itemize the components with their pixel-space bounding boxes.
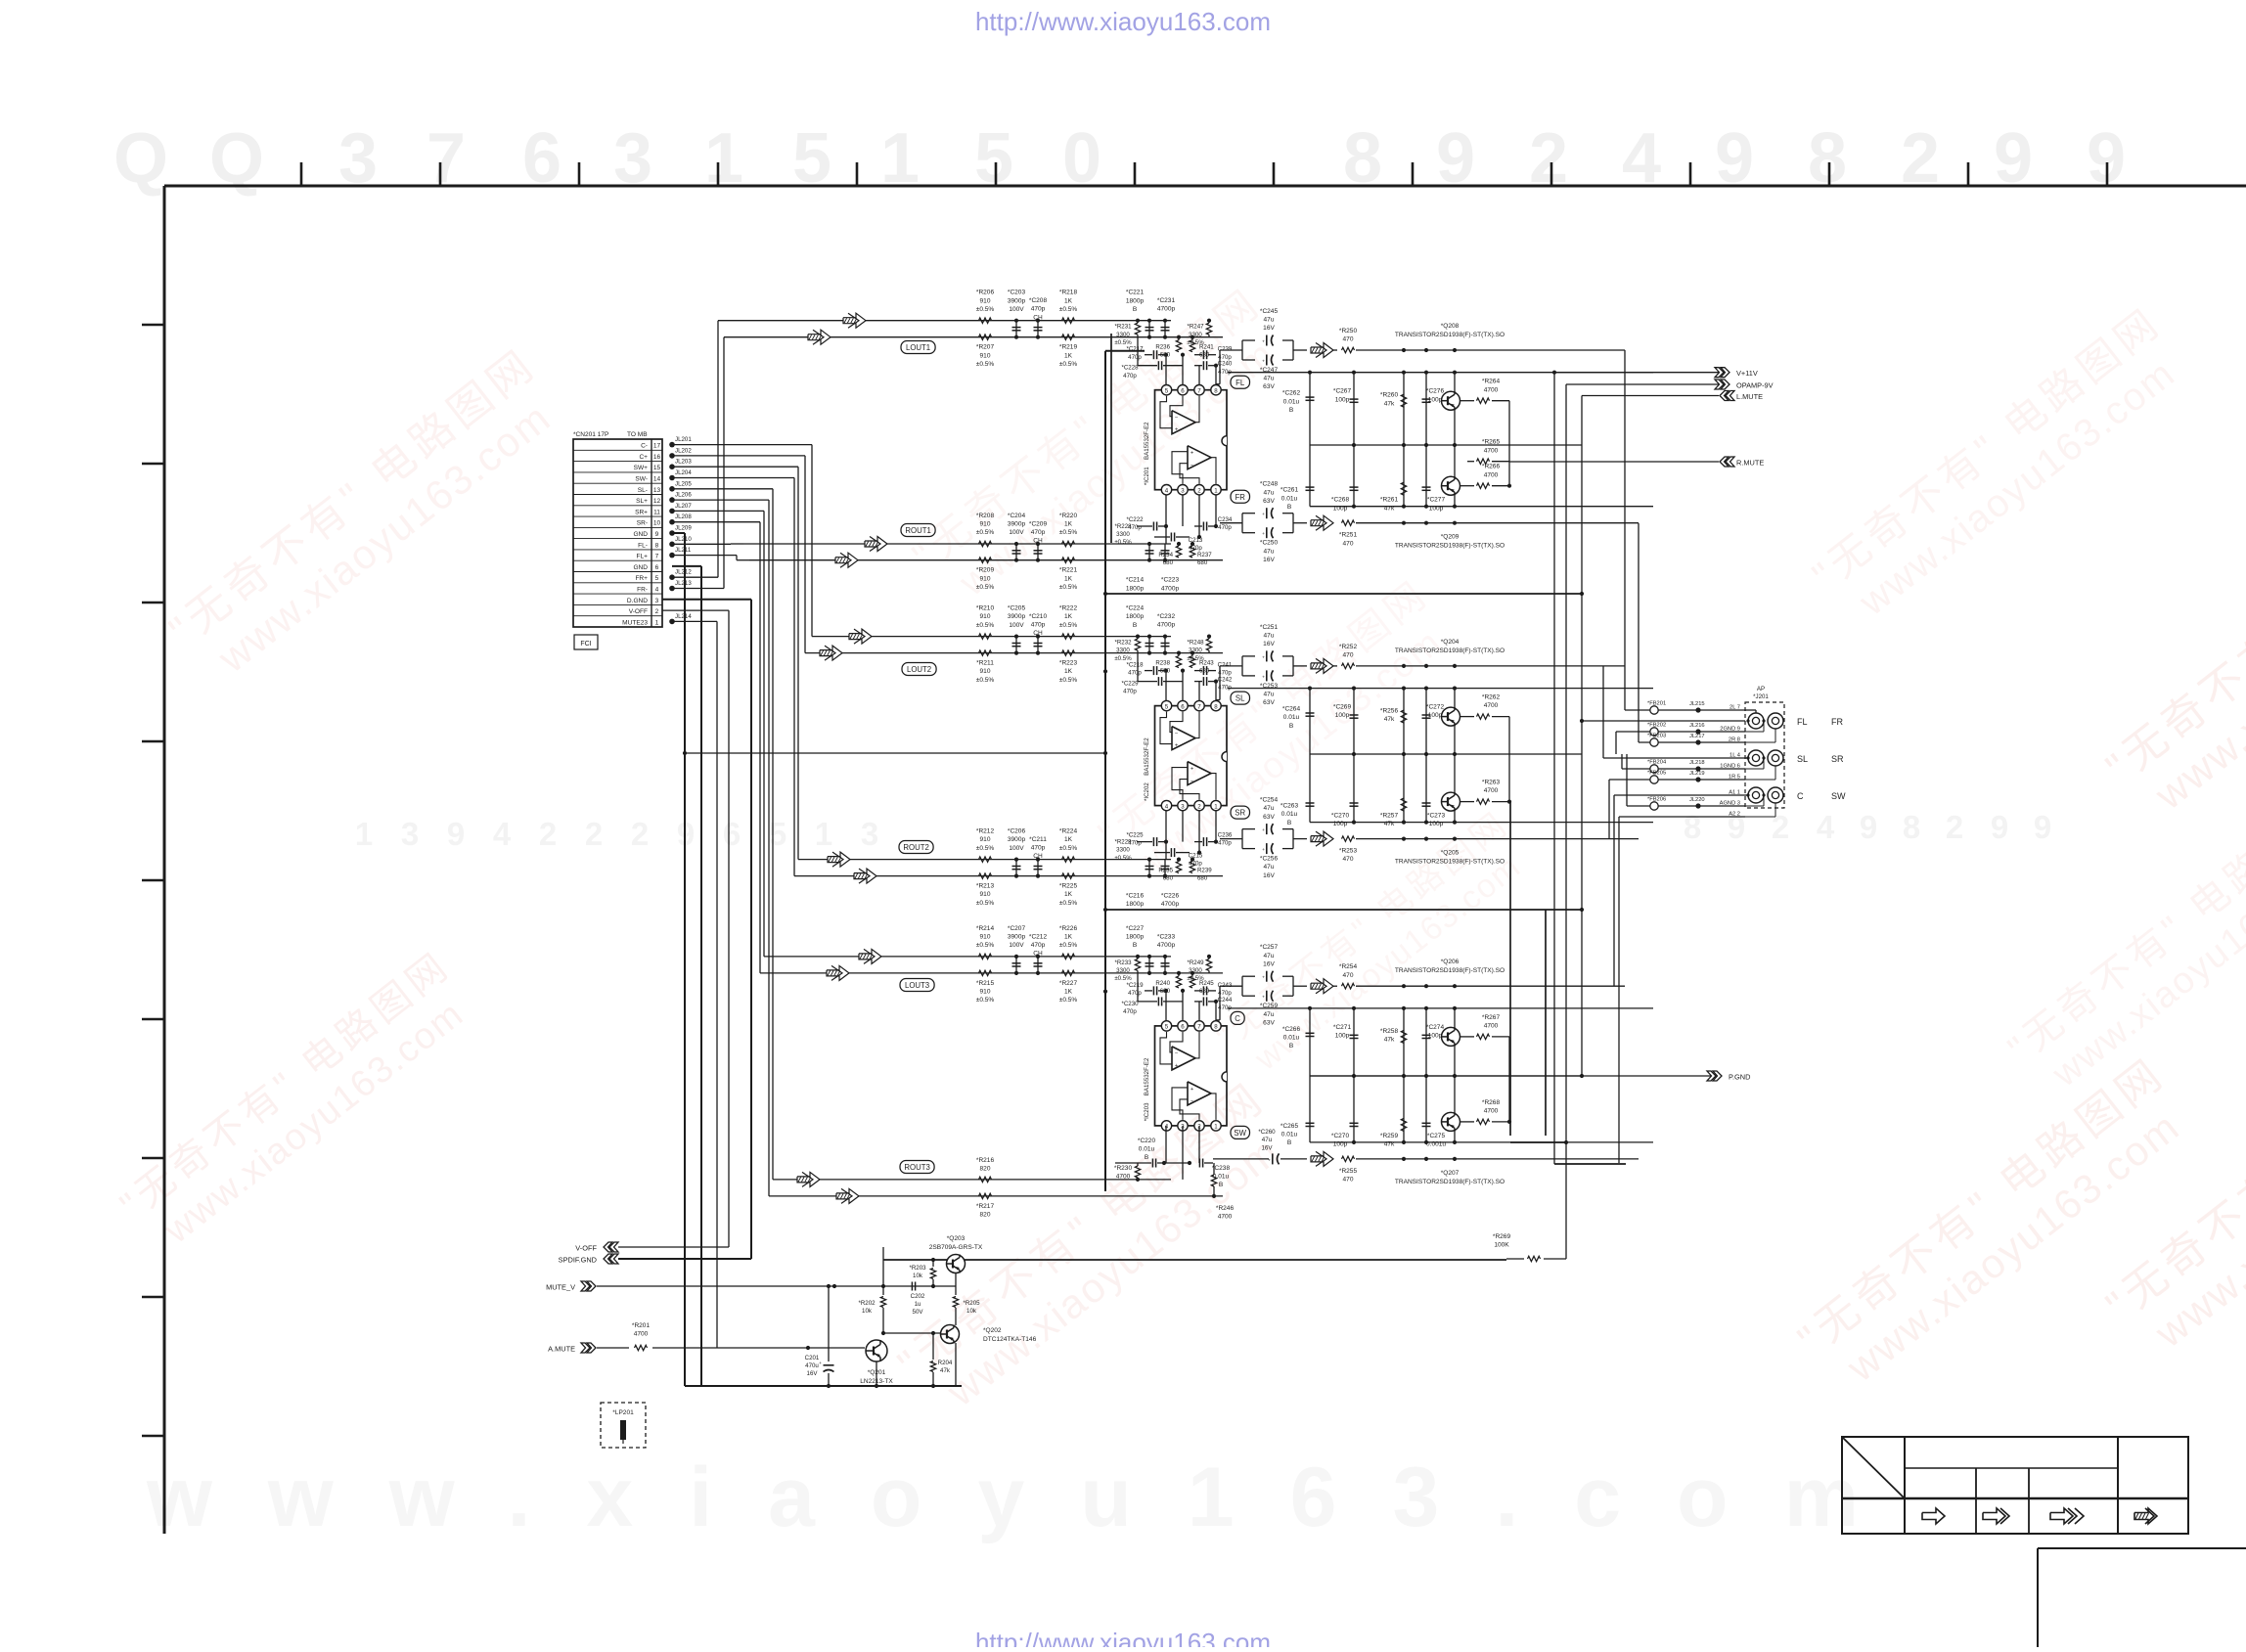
svg-text:±0.5%: ±0.5% (1114, 855, 1132, 862)
resistor R235 680 (1176, 862, 1181, 873)
svg-text:*R208: *R208 (976, 513, 995, 519)
svg-text:R237: R237 (1197, 552, 1212, 558)
resistor R221 (1062, 558, 1075, 562)
jumper JL203 (669, 464, 675, 469)
svg-text:*FB203: *FB203 (1647, 734, 1666, 739)
svg-text:1K: 1K (1064, 352, 1073, 359)
svg-text:1800p: 1800p (1126, 934, 1145, 941)
svg-text:TRANSISTOR2SD1938(F)-ST(TX).SO: TRANSISTOR2SD1938(F)-ST(TX).SO (1395, 1179, 1505, 1185)
svg-text:±0.5%: ±0.5% (976, 845, 995, 852)
resistor R255 470 (1342, 1156, 1355, 1161)
svg-text:SW-: SW- (635, 476, 648, 483)
svg-text:B: B (1133, 306, 1138, 313)
svg-text:*C226: *C226 (1161, 893, 1180, 900)
svg-text:*C269: *C269 (1333, 704, 1352, 711)
svg-text:63V: 63V (1263, 498, 1275, 505)
op-amp IC IC201 body (1155, 390, 1228, 490)
svg-text:*R233: *R233 (1114, 960, 1132, 966)
svg-text:JL217: JL217 (1689, 734, 1705, 739)
svg-text:*C257: *C257 (1260, 944, 1279, 951)
svg-text:*C228: *C228 (1121, 365, 1139, 372)
svg-text:47u: 47u (1262, 1137, 1273, 1143)
svg-text:63V: 63V (1263, 383, 1275, 390)
svg-text:*R202: *R202 (858, 1300, 876, 1307)
svg-text:*CN201 17P: *CN201 17P (573, 431, 609, 438)
pin 4 of IC202 (1161, 800, 1171, 810)
svg-text:*IC203: *IC203 (1144, 1102, 1150, 1121)
pin 4 of IC201 (1161, 485, 1171, 495)
op-amp B of IC201 (1188, 446, 1211, 469)
svg-text:*R226: *R226 (1059, 925, 1078, 932)
svg-text:1GND 6: 1GND 6 (1720, 764, 1740, 770)
svg-text:470p: 470p (1128, 524, 1142, 531)
wire pin16 route (672, 455, 805, 457)
svg-text:B: B (1289, 407, 1294, 414)
svg-text:7: 7 (1197, 1024, 1201, 1031)
pin 2 of IC202 (1194, 800, 1204, 810)
wire ROUT2 bottom line (794, 875, 1223, 877)
svg-text:ROUT3: ROUT3 (904, 1163, 929, 1172)
jumper JL206 (669, 497, 675, 503)
watermark gray digits middle row (355, 816, 878, 852)
svg-text:V+11V: V+11V (1736, 369, 1758, 378)
svg-text:*R262: *R262 (1482, 694, 1501, 701)
svg-text:R238: R238 (1155, 660, 1170, 667)
capacitor C264 0.01u (1309, 689, 1311, 754)
svg-text:470p: 470p (1128, 354, 1142, 361)
jumper JL213 (669, 586, 675, 592)
svg-text:*R260: *R260 (1380, 392, 1399, 399)
op-amp A of IC202 (1172, 727, 1195, 750)
svg-text:*C273: *C273 (1427, 813, 1446, 820)
svg-text:JL208: JL208 (675, 513, 692, 520)
svg-text:*C254: *C254 (1260, 797, 1279, 804)
svg-text:4700p: 4700p (1157, 622, 1176, 629)
label ROUT3 (900, 1161, 934, 1174)
svg-text:100p: 100p (1428, 712, 1443, 719)
svg-text:*Q208: *Q208 (1441, 323, 1460, 330)
svg-text:*FB206: *FB206 (1647, 797, 1666, 803)
pin 5 of IC201 (1161, 385, 1171, 395)
svg-text:±0.5%: ±0.5% (1114, 539, 1132, 546)
svg-text:13: 13 (653, 487, 661, 494)
svg-text:V-OFF: V-OFF (629, 608, 648, 615)
transistor Q201 (866, 1340, 887, 1362)
svg-text:*R203: *R203 (909, 1265, 926, 1272)
resistor R213 (979, 873, 992, 878)
svg-text:*C209: *C209 (1029, 520, 1048, 527)
svg-text:100K: 100K (1494, 1242, 1509, 1249)
jack SR (1768, 750, 1783, 766)
svg-text:A2 2: A2 2 (1729, 812, 1740, 818)
capacitor C202 1u 50V (911, 1282, 913, 1291)
title block diagonal (1842, 1437, 1905, 1498)
svg-text:R243: R243 (1199, 660, 1214, 667)
arrow A.MUTE (581, 1343, 590, 1353)
capacitor C213 470p (1170, 533, 1172, 542)
resistor R267 4700 (1460, 1036, 1474, 1038)
svg-text:3300: 3300 (1116, 847, 1130, 854)
svg-text:*C219: *C219 (1126, 982, 1144, 989)
svg-text:FR-: FR- (637, 587, 648, 594)
jumper JL219 (1695, 777, 1700, 781)
svg-text:*R249: *R249 (1187, 960, 1204, 966)
svg-text:*C218: *C218 (1126, 662, 1144, 669)
svg-text:*FB202: *FB202 (1647, 723, 1666, 729)
title block arrow single (1922, 1508, 1945, 1524)
svg-text:D.GND: D.GND (627, 598, 648, 604)
svg-text:470p: 470p (1123, 1008, 1137, 1015)
svg-text:10k: 10k (966, 1308, 977, 1315)
svg-text:16: 16 (653, 454, 661, 461)
svg-text:1K: 1K (1064, 668, 1073, 675)
wire FR out to jack row (1638, 523, 1640, 742)
svg-text:*Q203: *Q203 (947, 1235, 966, 1242)
signal arrow output bottom (1311, 515, 1333, 530)
svg-text:470p: 470p (1031, 529, 1046, 536)
svg-text:*R214: *R214 (976, 925, 995, 932)
signal arrow LOUT2 top (849, 629, 872, 644)
resistor R265 4700 (1477, 459, 1490, 464)
svg-text:470p: 470p (1031, 942, 1046, 949)
wire LOUT3 bottom line (760, 972, 1223, 974)
wire ROUT3 top line (773, 1179, 1171, 1181)
capacitor C270 100p (1353, 754, 1355, 823)
op-amp A of IC203 (1172, 1047, 1195, 1070)
svg-text:3300: 3300 (1116, 647, 1130, 654)
svg-text:4: 4 (493, 816, 512, 852)
svg-text:JL201: JL201 (675, 436, 692, 443)
svg-text:4700: 4700 (1484, 447, 1499, 454)
pin 7 of IC202 (1194, 700, 1204, 710)
svg-text:SL: SL (1235, 694, 1245, 703)
svg-text:*C256: *C256 (1260, 856, 1279, 863)
resistor R263 4700 (1460, 801, 1474, 803)
svg-text:*J201: *J201 (1753, 693, 1769, 700)
svg-text:LOUT3: LOUT3 (905, 981, 929, 990)
svg-text:*R247: *R247 (1187, 324, 1204, 331)
wire SPDIF.GND line (618, 1258, 751, 1260)
svg-text:3: 3 (1181, 488, 1185, 495)
svg-text:2R 8: 2R 8 (1729, 737, 1740, 743)
svg-text:2: 2 (1197, 488, 1201, 495)
capacitor C214 between (1148, 544, 1150, 560)
svg-text:*C206: *C206 (1008, 828, 1026, 835)
capacitor C267 100p (1353, 373, 1355, 445)
wire rail bottom (1310, 506, 1653, 508)
resistor R217 (979, 1193, 992, 1198)
watermark gray digits top row (113, 119, 2126, 198)
svg-text:7: 7 (1197, 703, 1201, 710)
svg-text:*C212: *C212 (1029, 933, 1048, 940)
jumper JL204 (669, 475, 675, 481)
svg-text:0.01u: 0.01u (1283, 714, 1300, 721)
svg-text:SL: SL (1797, 754, 1808, 764)
svg-text:15: 15 (653, 465, 661, 471)
pin 4 of IC203 (1161, 1121, 1171, 1131)
wire feedback op-amp A of IC202 (1160, 712, 1172, 744)
svg-text:JL209: JL209 (675, 525, 692, 532)
capacitor C245 / C247 pair (1241, 340, 1243, 360)
capacitor C208 (1037, 321, 1039, 337)
svg-text:16V: 16V (1263, 641, 1275, 647)
svg-text:FL: FL (1797, 717, 1808, 727)
capacitor C254 / C256 pair bottom (1241, 829, 1243, 849)
wire cluster verticals to IC pins (1165, 355, 1167, 390)
svg-text:http://www.xiaoyu163.com: http://www.xiaoyu163.com (975, 7, 1271, 36)
svg-text:+: + (1262, 996, 1265, 1001)
resistor R253 470 (1342, 836, 1355, 841)
wire rail top (1228, 372, 1653, 374)
svg-text:*R209: *R209 (976, 567, 995, 574)
capacitor C273 100p/0.001u (1425, 754, 1427, 823)
resistor R257 47k (1403, 754, 1405, 823)
svg-text:JL210: JL210 (675, 536, 692, 543)
svg-text:47k: 47k (940, 1367, 951, 1374)
svg-text:470p: 470p (1218, 524, 1232, 531)
wire Q203 emitter down (955, 1273, 957, 1287)
svg-text:4: 4 (655, 587, 659, 594)
wire SR out to jack row (1608, 780, 1610, 839)
svg-text:5: 5 (1165, 388, 1169, 395)
svg-text:C236: C236 (1218, 832, 1233, 839)
svg-text:L.MUTE: L.MUTE (1736, 392, 1763, 401)
svg-text:910: 910 (980, 891, 991, 898)
resistor R209 (979, 558, 992, 562)
wire Q202 base line (883, 1332, 940, 1334)
resistor R206 (979, 318, 992, 323)
wire LOUT3 top line (764, 956, 1171, 958)
svg-text:*R248: *R248 (1187, 640, 1204, 647)
capacitor C274 100p (1425, 1008, 1427, 1076)
capacitor C260 / C260 pair bottom (1272, 1153, 1274, 1164)
svg-text:47u: 47u (1264, 864, 1275, 871)
svg-text:1: 1 (1214, 488, 1218, 495)
svg-text:R240: R240 (1155, 980, 1170, 987)
svg-text:910: 910 (980, 934, 991, 941)
svg-text:470: 470 (1343, 972, 1354, 979)
capacitor C257 / C259 pair (1241, 976, 1243, 996)
wire pin8 riser to output (1219, 986, 1221, 1020)
svg-text:±0.5%: ±0.5% (976, 306, 995, 313)
svg-text:TO MB: TO MB (627, 431, 648, 438)
svg-text:1800p: 1800p (1126, 585, 1145, 592)
svg-text:*R221: *R221 (1059, 567, 1078, 574)
wire rail bottom (1310, 1141, 1653, 1143)
svg-text:3: 3 (655, 598, 659, 604)
svg-text:±0.5%: ±0.5% (976, 942, 995, 949)
signal arrow ROUT3 top (797, 1172, 820, 1186)
wire Q202 emitter down (955, 1343, 957, 1386)
signal arrow ROUT2 bottom (854, 869, 876, 883)
capacitor C236 470p (1202, 837, 1204, 846)
pin 6 of IC203 (1178, 1021, 1188, 1031)
wire V+11V line (1554, 372, 1719, 374)
resistor R201 4700 (635, 1345, 648, 1350)
svg-text:CH: CH (1033, 630, 1043, 637)
svg-text:*C204: *C204 (1008, 513, 1026, 519)
wire ROUT3 bottom line (769, 1195, 1223, 1197)
svg-text:6: 6 (723, 816, 741, 852)
capacitor C241 470p (1202, 666, 1204, 675)
svg-text:4700p: 4700p (1157, 942, 1176, 949)
connector CN201 body (573, 439, 662, 627)
capacitor C276 100p (1425, 373, 1427, 445)
svg-text:680: 680 (1197, 559, 1208, 566)
svg-text:JL215: JL215 (1689, 701, 1705, 707)
wire MUTE_V line (597, 1285, 956, 1287)
svg-text:C-: C- (641, 443, 648, 450)
svg-text:1R 5: 1R 5 (1729, 775, 1740, 781)
wire rail top (1228, 1007, 1653, 1009)
svg-text:16V: 16V (807, 1370, 819, 1377)
wire feedback op-amp B of IC202 (1172, 768, 1188, 800)
svg-text:910: 910 (980, 297, 991, 304)
resistor R208 (979, 541, 992, 546)
svg-text:FR: FR (1235, 493, 1246, 502)
svg-text:100p: 100p (1335, 396, 1350, 403)
svg-text:1u: 1u (915, 1301, 921, 1308)
svg-text:SL-: SL- (638, 487, 648, 494)
jumper JL220 (1695, 803, 1700, 808)
svg-text:*C264: *C264 (1282, 706, 1301, 713)
channel label SW (1231, 1126, 1250, 1139)
svg-text:0.01u: 0.01u (1283, 398, 1300, 405)
capacitor C239 470p (1202, 350, 1204, 359)
capacitor C206 (1015, 860, 1017, 876)
wire V-OFF line (618, 1246, 729, 1248)
jumper JL214 (669, 619, 675, 625)
resistor R207 (979, 335, 992, 339)
svg-text:680: 680 (1197, 875, 1208, 882)
jack C (1748, 787, 1764, 803)
svg-text:Q: Q (113, 119, 168, 198)
wire x903 vertical (882, 1247, 884, 1286)
svg-text:SR: SR (1831, 754, 1844, 764)
wire feedback op-amp B of IC201 (1172, 452, 1188, 484)
svg-text:47k: 47k (1384, 400, 1395, 407)
svg-text:SW+: SW+ (634, 465, 649, 471)
svg-text:JL219: JL219 (1689, 771, 1705, 777)
svg-text:±0.5%: ±0.5% (976, 584, 995, 591)
svg-text:*C267: *C267 (1333, 388, 1352, 395)
wire cluster verticals to IC pins (1165, 671, 1167, 706)
jumper JL212 (669, 574, 675, 580)
svg-text:10k: 10k (913, 1272, 923, 1279)
svg-text:*R261: *R261 (1380, 497, 1399, 504)
signal arrow output top (1311, 979, 1333, 994)
svg-text:*C270: *C270 (1331, 1133, 1350, 1139)
svg-text:1K: 1K (1064, 613, 1073, 620)
wire pin8 route to ROUT1 top (672, 543, 731, 545)
jumper JL209 (669, 530, 675, 536)
wire output bottom to right (1356, 1158, 1639, 1160)
svg-text:JL202: JL202 (675, 447, 692, 454)
capacitor C219 470p (1152, 986, 1154, 995)
capacitor C243 470p (1202, 986, 1204, 995)
svg-text:*C222: *C222 (1126, 516, 1144, 523)
svg-text:*Q209: *Q209 (1441, 534, 1460, 541)
svg-text:C202: C202 (911, 1293, 925, 1300)
resistor R262 4700 (1460, 716, 1474, 718)
svg-text:100V: 100V (1009, 529, 1024, 536)
svg-text:*C260: *C260 (1258, 1129, 1276, 1136)
svg-text:3900p: 3900p (1008, 613, 1026, 620)
capacitor C268 100p (1353, 445, 1355, 507)
svg-text:*C203: *C203 (1008, 290, 1026, 296)
svg-text:*C277: *C277 (1427, 497, 1446, 504)
svg-text:*R253: *R253 (1339, 848, 1358, 855)
wire inter-block vertical x1544 (1509, 802, 1511, 1136)
resistor R258 47k (1403, 1008, 1405, 1076)
svg-text:R239: R239 (1197, 868, 1212, 874)
svg-text:3900p: 3900p (1008, 297, 1026, 304)
svg-text:http://www.xiaoyu163.com: http://www.xiaoyu163.com (975, 1628, 1271, 1647)
svg-text:8: 8 (1214, 1024, 1218, 1031)
svg-text:B: B (1219, 1182, 1224, 1188)
svg-text:OPAMP-9V: OPAMP-9V (1736, 381, 1774, 390)
svg-text:0.01u: 0.01u (1283, 1035, 1300, 1042)
svg-text:1K: 1K (1064, 989, 1073, 996)
wire rail bottom (1310, 822, 1653, 824)
svg-text:470: 470 (1343, 652, 1354, 659)
svg-text:6: 6 (655, 564, 659, 571)
svg-text:±0.5%: ±0.5% (976, 622, 995, 629)
transistor Q upper (1454, 1008, 1456, 1028)
svg-text:910: 910 (980, 613, 991, 620)
svg-text:*C250: *C250 (1260, 540, 1279, 547)
svg-text:SR-: SR- (637, 520, 648, 527)
svg-text:+: + (1262, 828, 1265, 833)
capacitor C271 100p (1353, 1008, 1355, 1076)
pin 8 of IC201 (1211, 385, 1221, 395)
svg-text:±0.5%: ±0.5% (976, 361, 995, 368)
jumper JL211 (669, 553, 675, 558)
wire jack jogs pair2 (1745, 757, 1748, 759)
svg-text:11: 11 (653, 509, 660, 515)
resistor R204 47k (932, 1333, 934, 1360)
svg-text:5: 5 (769, 816, 786, 852)
wire FL out to jack row (1624, 350, 1626, 710)
wire R.MUTE line (1509, 461, 1719, 463)
svg-text:1800p: 1800p (1126, 297, 1145, 304)
wire jack jogs pair3 (1745, 794, 1748, 796)
pin 3 of IC203 (1178, 1121, 1188, 1131)
resistor R226 (1062, 954, 1075, 959)
svg-text:+: + (1262, 976, 1265, 981)
op-amp B of IC202 (1188, 762, 1211, 785)
resistor R214 (979, 954, 992, 959)
svg-text:8: 8 (1214, 703, 1218, 710)
svg-text:FR: FR (1831, 717, 1844, 727)
svg-text:4700: 4700 (1116, 1174, 1131, 1181)
svg-text:100p: 100p (1335, 712, 1350, 719)
svg-text:9: 9 (1860, 809, 1877, 845)
wire output top to right (1356, 665, 1625, 667)
title block arrow triple (2050, 1508, 2073, 1524)
svg-text:C234: C234 (1218, 516, 1233, 523)
wire SL out to jack row (1602, 666, 1604, 758)
capacitor C269 100p (1353, 689, 1355, 754)
svg-text:470p: 470p (1218, 840, 1232, 847)
svg-text:SPDIF.GND: SPDIF.GND (559, 1256, 597, 1265)
wire pin4 route (672, 588, 724, 590)
wire pin15 route (672, 466, 798, 468)
wire mid bus (1310, 444, 1582, 446)
svg-text:*R220: *R220 (1059, 513, 1078, 519)
svg-text:2SB709A-GRS-TX: 2SB709A-GRS-TX (929, 1244, 983, 1251)
svg-text:R204: R204 (938, 1360, 953, 1366)
